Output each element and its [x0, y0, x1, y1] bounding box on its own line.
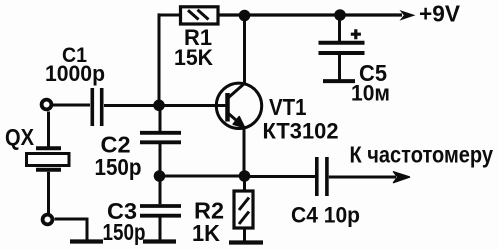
- power arrow +9V: [400, 10, 416, 21]
- wire left branch vertical: [158, 13, 161, 105]
- wire bottom terminal to ground: [55, 218, 88, 241]
- wire top terminal to crystal: [47, 112, 50, 147]
- output arrow: [394, 172, 410, 183]
- wire C4 left lead: [245, 175, 316, 178]
- svg-text:VT1: VT1: [269, 94, 307, 120]
- node emitter junction right: [239, 170, 251, 182]
- capacitor C4: [317, 157, 327, 196]
- svg-text:КТ3102: КТ3102: [263, 119, 339, 144]
- crystal QX: [27, 148, 70, 214]
- wire C4 right lead: [329, 176, 396, 179]
- terminal bottom: [43, 215, 53, 225]
- wire top rail: [219, 13, 402, 16]
- ground R2: [229, 240, 263, 244]
- ground C5: [323, 79, 355, 83]
- capacitor C1: [92, 88, 101, 126]
- capacitor C2: [140, 133, 181, 176]
- wire C3 top lead: [159, 176, 162, 204]
- wire R1 left lead: [159, 14, 180, 17]
- transistor VT1: [216, 83, 261, 129]
- node base junction: [153, 100, 165, 112]
- capacitor C5: [319, 43, 365, 80]
- capacitor C3: [140, 206, 181, 241]
- svg-text:QX: QX: [5, 124, 35, 150]
- wire base: [104, 104, 226, 107]
- terminal top: [42, 100, 52, 110]
- wire C2 top lead: [159, 105, 162, 131]
- svg-text:C4 10p: C4 10p: [291, 203, 360, 228]
- plus sign C5: [351, 29, 361, 39]
- svg-text:1K: 1K: [192, 220, 220, 246]
- wire terminal to C1: [53, 104, 90, 107]
- node collector rail junction: [239, 10, 251, 22]
- svg-text:+9V: +9V: [419, 1, 461, 27]
- resistor R1: [181, 7, 219, 24]
- node emitter-C2 junction left: [154, 170, 166, 182]
- node C5 rail junction: [334, 9, 346, 21]
- ground QX: [70, 239, 103, 243]
- svg-text:150p: 150p: [95, 154, 142, 180]
- ground C3: [143, 239, 176, 243]
- svg-text:150p: 150p: [103, 219, 146, 245]
- wire C5 top lead: [338, 15, 341, 41]
- svg-text:1000p: 1000p: [45, 61, 105, 86]
- svg-text:К частотомеру: К частотомеру: [350, 142, 494, 168]
- svg-text:10м: 10м: [351, 80, 390, 105]
- wire emitter row: [160, 175, 245, 178]
- wire emitter lead: [243, 127, 246, 176]
- wire collector: [243, 15, 246, 84]
- svg-text:15K: 15K: [174, 45, 213, 70]
- resistor R2: [234, 176, 253, 241]
